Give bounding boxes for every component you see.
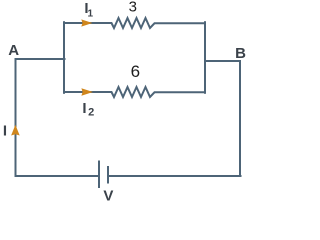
svg-text:1: 1 bbox=[88, 8, 94, 19]
svg-text:V: V bbox=[103, 187, 113, 203]
svg-text:I: I bbox=[3, 122, 7, 139]
svg-text:6: 6 bbox=[131, 62, 140, 81]
svg-text:2: 2 bbox=[88, 106, 94, 118]
svg-text:A: A bbox=[8, 42, 19, 59]
svg-text:B: B bbox=[235, 45, 246, 62]
svg-text:3: 3 bbox=[129, 0, 137, 15]
svg-text:I: I bbox=[82, 100, 86, 117]
